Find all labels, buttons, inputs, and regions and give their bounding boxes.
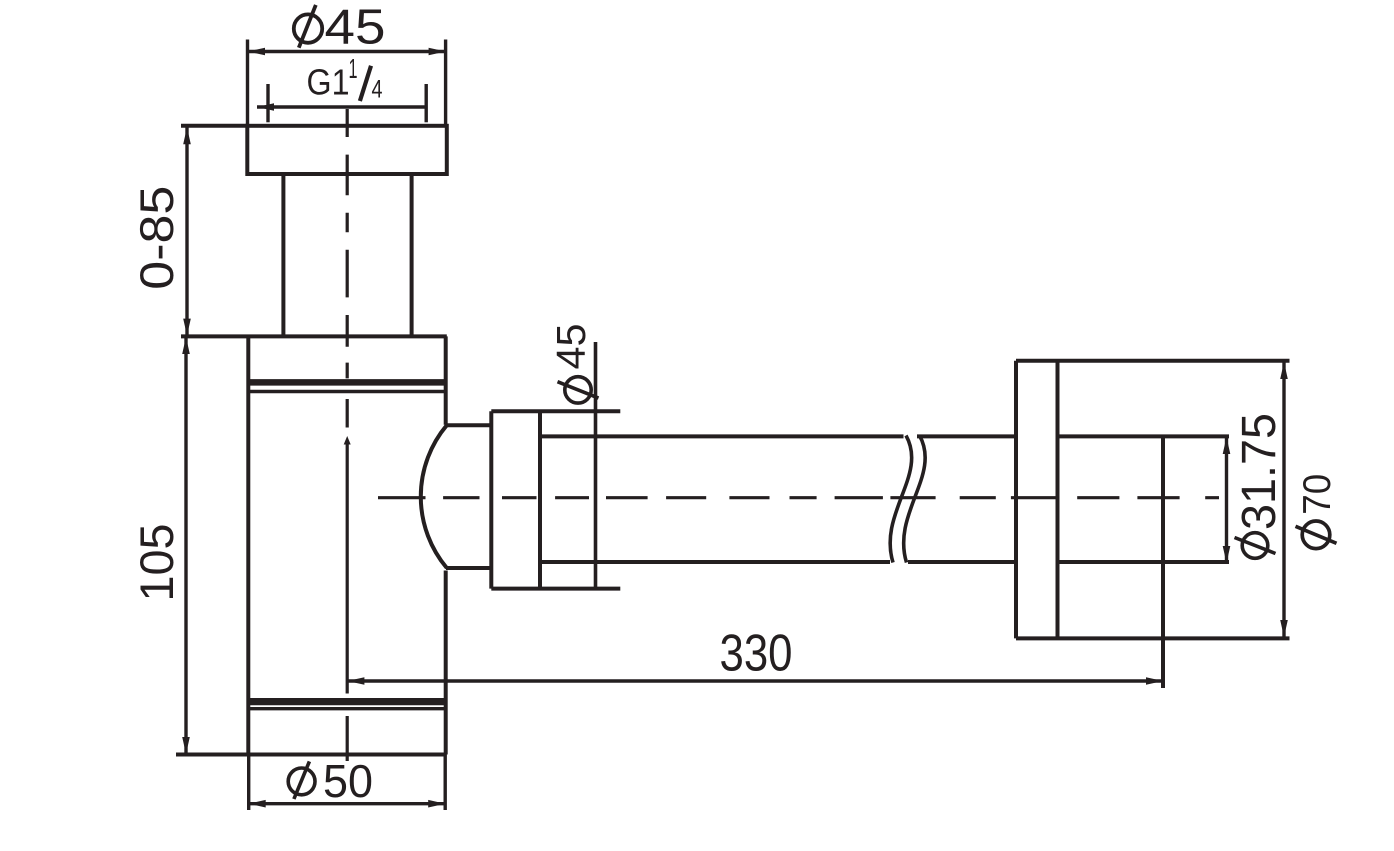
svg-text:1: 1 (349, 53, 358, 84)
svg-text:45: 45 (325, 0, 386, 54)
svg-text:70: 70 (1296, 474, 1339, 515)
svg-text:105: 105 (130, 524, 183, 602)
svg-text:G1: G1 (307, 62, 350, 103)
svg-text:31.75: 31.75 (1233, 413, 1286, 530)
svg-text:330: 330 (720, 625, 793, 683)
svg-text:0-85: 0-85 (130, 186, 183, 290)
svg-text:4: 4 (372, 75, 383, 103)
svg-text:50: 50 (323, 755, 373, 807)
svg-text:45: 45 (548, 324, 594, 370)
